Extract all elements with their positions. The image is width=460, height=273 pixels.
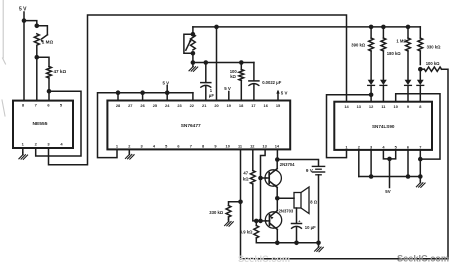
ground (pot R2) bbox=[189, 65, 198, 72]
node bus D2 branch bbox=[381, 25, 386, 30]
node loop1 joins pin 12 wire bbox=[369, 93, 374, 98]
node 1uF cap branch bbox=[204, 60, 209, 65]
svg-text:5V: 5V bbox=[385, 189, 390, 194]
svg-text:7: 7 bbox=[419, 144, 421, 149]
wire R6 to D3 bbox=[407, 51, 409, 80]
node junction 5V/pot bbox=[22, 18, 27, 23]
battery B1 9 V bbox=[312, 165, 324, 167]
wire D1 to U3 pin 12 bbox=[370, 86, 372, 102]
svg-text:20: 20 bbox=[214, 103, 218, 108]
wire 1uF branch down bbox=[205, 63, 207, 83]
wire NE555 pin 3 output to counter clock bbox=[49, 15, 347, 165]
svg-text:47 kΩ: 47 kΩ bbox=[54, 69, 67, 74]
svg-text:2N3703: 2N3703 bbox=[279, 209, 294, 214]
svg-text:10: 10 bbox=[226, 143, 230, 148]
wire loop U3 pin1 to pin12 (around left) bbox=[327, 95, 372, 158]
wire branch to 330k bbox=[229, 202, 241, 206]
svg-text:SN76477: SN76477 bbox=[181, 123, 201, 129]
capacitor C2 0.0022 uF (to U2 pin 17) bbox=[249, 80, 259, 82]
resistor R10 47 kohm bbox=[250, 171, 255, 185]
wire base bus down to Q2 base bbox=[260, 178, 262, 221]
resistor R9 330 kohm bbox=[226, 206, 231, 218]
wire pot wiper loop bbox=[37, 26, 48, 35]
node pin7 stub junction bbox=[418, 157, 423, 162]
potentiometer R1 1 Mohm body bbox=[34, 34, 39, 45]
wire stub U2 pin 26 bbox=[142, 93, 144, 101]
svg-text:330 kΩ: 330 kΩ bbox=[209, 210, 223, 215]
wire 47k to base rail bbox=[253, 184, 256, 221]
svg-text:1 MΩ: 1 MΩ bbox=[42, 40, 54, 45]
wire 5V stub to U2 pin 19 bbox=[228, 92, 230, 101]
wire battery minus down to rail bbox=[318, 175, 320, 243]
resistor R7 330 kohm bbox=[418, 38, 423, 51]
wire 5V bus wrap-around to U2 pin 1 bbox=[98, 93, 193, 158]
wire pot R2 bottom to junction bbox=[192, 53, 194, 62]
transistor Q2 2N3703 (PNP) bbox=[265, 212, 281, 228]
node bus D1 branch bbox=[369, 25, 374, 30]
svg-text:NE555: NE555 bbox=[33, 121, 48, 127]
resistor R8 100 kohm (horizontal) bbox=[424, 67, 441, 71]
node pot R2 bottom junction bbox=[191, 60, 196, 65]
node rail Q2 collector bbox=[275, 241, 280, 246]
wire D4 to U3 pin 8 bbox=[419, 86, 421, 102]
node bus pin20 branch bbox=[214, 25, 219, 30]
node pot R2 top bbox=[191, 32, 196, 37]
node pot R1 top bbox=[35, 24, 40, 29]
svg-text:330 kΩ: 330 kΩ bbox=[427, 44, 441, 49]
wire Q2 base lead bbox=[261, 220, 267, 222]
svg-text:47: 47 bbox=[243, 170, 248, 175]
wire D2 to U3 pin 11 bbox=[382, 86, 384, 102]
svg-text:2N3704: 2N3704 bbox=[280, 162, 295, 167]
node rail pin3 bbox=[369, 174, 374, 179]
svg-text:10 μF: 10 μF bbox=[305, 225, 316, 230]
svg-text:17: 17 bbox=[251, 103, 255, 108]
svg-text:8 Ω: 8 Ω bbox=[310, 199, 317, 204]
wire R5 to D2 bbox=[382, 51, 384, 80]
svg-text:kΩ: kΩ bbox=[230, 74, 236, 79]
wire pot R2 wiper loop bbox=[184, 34, 193, 53]
potentiometer R2 body bbox=[191, 34, 196, 50]
wire pot bottom to junction bbox=[36, 47, 38, 58]
wire junction down to NE555 pin 7 bbox=[36, 57, 38, 100]
wire supply node to battery bbox=[277, 160, 318, 166]
ground (U2 pin 2) bbox=[125, 152, 134, 159]
svg-text:5 V: 5 V bbox=[281, 90, 288, 95]
wire 47k bottom to pin6 node bbox=[48, 78, 50, 91]
IC U2 SN76477 body bbox=[107, 101, 290, 150]
wire control bus to U2 pin 20 bbox=[216, 27, 218, 101]
diode D1 bbox=[368, 80, 375, 85]
wire emitter rail bbox=[256, 238, 318, 243]
diode D2 bbox=[380, 80, 387, 85]
wire U2 pin 11 down bbox=[240, 149, 242, 201]
resistor R4 390 kohm bbox=[369, 38, 374, 51]
wire emitter node to speaker bbox=[277, 197, 294, 199]
svg-text:0.0022 μF: 0.0022 μF bbox=[262, 80, 282, 85]
wire U3 pin 7 stub bbox=[419, 150, 421, 181]
node 330k/100k junction bbox=[418, 67, 423, 72]
resistor R5 180 kohm bbox=[381, 38, 386, 51]
wire U2 pin 12 down bbox=[252, 149, 254, 170]
node Q2 base bbox=[258, 219, 263, 224]
resistor 47 kohm bbox=[47, 67, 52, 79]
node bus pin28 bbox=[116, 90, 121, 95]
svg-text:kΩ: kΩ bbox=[243, 176, 249, 181]
svg-text:5 V: 5 V bbox=[19, 7, 27, 13]
svg-text:180 kΩ: 180 kΩ bbox=[387, 51, 401, 56]
wire loop U3 pin10 to pin7 (around right) bbox=[396, 94, 440, 159]
ground (NE555 pin 1) bbox=[19, 153, 28, 160]
wire Q1 base lead bbox=[261, 177, 267, 179]
wire R8 corner down right side bbox=[442, 69, 449, 259]
wire R7 to D4 bbox=[419, 51, 421, 65]
node 100k branch on timing row bbox=[239, 60, 244, 65]
svg-text:3.9 kΩ: 3.9 kΩ bbox=[240, 229, 253, 234]
ground (U3 pin 7 rail) bbox=[416, 181, 425, 188]
wire bus corner down to U2 pin 22 bbox=[192, 93, 194, 101]
node Q1 emitter / speaker bbox=[275, 196, 280, 201]
node base/3.9k junction bbox=[254, 219, 259, 224]
wire stub U2 pin 28 bbox=[117, 93, 119, 101]
resistor R11 3.9 kohm bbox=[254, 226, 259, 239]
resistor R6 1 Mohm bbox=[406, 38, 411, 51]
wire 5V label stub bbox=[166, 86, 168, 93]
svg-text:SeekIC.com: SeekIC.com bbox=[397, 254, 449, 264]
ground (output rail) bbox=[315, 245, 324, 252]
resistor R3 100 kohm (to U2 pin 18) bbox=[240, 63, 242, 70]
capacitor C1 1 uF (to U2 pin 21) bbox=[201, 82, 211, 84]
wire timing row to caps bbox=[193, 62, 254, 64]
diode D4 bbox=[417, 80, 424, 85]
wire 5V feed down bbox=[389, 159, 391, 188]
wire timing row corner to 0.0022uF bbox=[253, 63, 255, 81]
speaker LS1 8 ohm bbox=[294, 193, 301, 209]
wire 3.9k top bbox=[255, 221, 257, 226]
svg-text:10: 10 bbox=[394, 104, 398, 109]
wiper arrow of pot R2 bbox=[186, 40, 191, 50]
svg-text:5 V: 5 V bbox=[163, 80, 170, 85]
wire U3 pin 2 to reset rail bbox=[358, 150, 360, 177]
svg-text:1 MΩ: 1 MΩ bbox=[396, 38, 407, 43]
node rail pin7 bbox=[418, 174, 423, 179]
node rail pin6 bbox=[406, 174, 411, 179]
ground (R9) bbox=[225, 219, 234, 226]
svg-text:5 V: 5 V bbox=[224, 86, 231, 91]
capacitor C3 10 uF electrolytic bbox=[292, 223, 302, 225]
wire 5V rail down to NE555 pin 8 bbox=[23, 12, 25, 101]
svg-text:27: 27 bbox=[128, 103, 132, 108]
wire U2 pin 13 to Q1 base bbox=[261, 149, 266, 178]
wire R4 to D1 bbox=[370, 51, 372, 80]
wire junction to 47k top bbox=[37, 57, 49, 66]
node bus pin26 bbox=[140, 90, 145, 95]
node 5V feed bbox=[387, 157, 392, 162]
node Q1 base bbox=[258, 176, 263, 181]
node pot R2 bottom bbox=[191, 51, 196, 56]
supply arrow 5V at U2 pin 15 bbox=[277, 92, 279, 101]
wire threshold-to-trigger (pin6 to pin2) bbox=[36, 91, 81, 156]
wire junction to D4 bbox=[419, 69, 421, 80]
wire 330k to ground bbox=[228, 217, 230, 219]
wire 5V to 1M pot top bbox=[24, 21, 37, 26]
node bus D3 branch bbox=[406, 25, 411, 30]
wire U3 pins 4+5 join bbox=[383, 150, 395, 159]
node pin 6 / trigger junction bbox=[47, 89, 52, 94]
svg-text:SeekIC.com: SeekIC.com bbox=[238, 254, 290, 264]
wire U2 pin 14 to supply node bbox=[276, 149, 278, 159]
wire D3 to U3 pin 9 bbox=[407, 86, 409, 102]
node rail battery bbox=[316, 241, 321, 246]
IC U3 SN74LS90 body bbox=[334, 102, 432, 150]
wire bus corner down to 330k bbox=[419, 27, 421, 38]
wire 100k to pin 18 bbox=[240, 81, 242, 101]
svg-text:SN74LS90: SN74LS90 bbox=[372, 124, 395, 129]
wire reset rail bbox=[359, 176, 421, 178]
wire NE555 pin 1 to ground bbox=[22, 148, 24, 153]
node Q1 collector / battery + bbox=[275, 157, 280, 162]
wire control bus from pot bbox=[192, 27, 194, 34]
wire node to NE555 pin 6 bbox=[48, 91, 50, 100]
svg-text:μF: μF bbox=[209, 93, 215, 98]
wire U3 pin 3 stub bbox=[370, 150, 372, 177]
svg-text:9 V: 9 V bbox=[306, 168, 314, 173]
scan artifact left edge bbox=[2, 0, 6, 116]
node 330k branch bbox=[238, 200, 243, 205]
wire U2 pin 2 ground stub bbox=[128, 149, 130, 152]
svg-text:7: 7 bbox=[190, 143, 192, 148]
svg-text:390 kΩ: 390 kΩ bbox=[351, 43, 365, 48]
wire stub U2 pin 24 bbox=[166, 93, 168, 101]
wire U3 pin 6 stub bbox=[407, 150, 409, 177]
svg-text:100 kΩ: 100 kΩ bbox=[426, 61, 440, 66]
diode D3 bbox=[405, 80, 412, 85]
node rail C3 bbox=[294, 241, 299, 246]
node pot bottom / pin7 junction bbox=[35, 55, 40, 60]
wire control bus (pot to diode network) bbox=[193, 26, 420, 28]
wire U2 pin 11 to counter feedback bbox=[241, 202, 449, 259]
transistor Q1 2N3704 (NPN) bbox=[265, 170, 281, 186]
op-amp U1 NE555 body bbox=[13, 101, 73, 148]
node bus pin24 bbox=[165, 90, 170, 95]
wire speaker to coupling cap bbox=[296, 208, 298, 223]
wiper arrow of pot R1 bbox=[42, 35, 48, 39]
